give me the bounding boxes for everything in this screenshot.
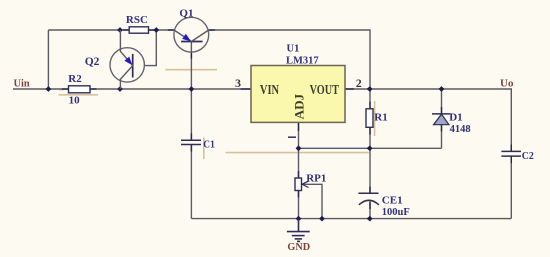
wire: Q1 base stub xyxy=(190,52,192,58)
wire: C1 top pin stub xyxy=(190,134,192,141)
svg-text:Uin: Uin xyxy=(14,77,30,89)
wire: D1 cathode pin stub xyxy=(441,107,443,114)
wire: CE1 top lead xyxy=(369,148,371,193)
op-amp U1 LM317 regulator body xyxy=(251,66,345,123)
wire: bottom rail xyxy=(191,218,511,220)
wire: C1 bottom column xyxy=(190,145,192,219)
svg-text:U1: U1 xyxy=(287,44,300,55)
svg-text:RP1: RP1 xyxy=(306,172,326,184)
node: wiper on bottom rail xyxy=(319,216,325,222)
wire: top rail right segment to corner xyxy=(209,30,370,89)
svg-text:R2: R2 xyxy=(68,73,82,85)
wire: Q2 base to RSC right junction xyxy=(144,30,156,66)
tan highlight line under R2 xyxy=(59,94,99,96)
wire: RP1 column xyxy=(298,148,300,218)
svg-text:10: 10 xyxy=(69,95,81,107)
tan dash on wire left of R2 xyxy=(60,89,64,91)
wire: C2 bottom pin stub xyxy=(510,156,512,163)
potentiometer RP1 xyxy=(295,172,326,190)
wire: R1 top pin stub xyxy=(369,102,371,109)
tan vertical near R1 xyxy=(374,101,376,136)
svg-text:D1: D1 xyxy=(449,111,462,123)
wire: RSC pin 2 stub xyxy=(149,29,155,31)
pin number 1 (rotated) xyxy=(288,136,296,138)
svg-text:LM317: LM317 xyxy=(286,55,319,66)
wire: R2 pin 2 stub xyxy=(90,88,97,90)
wire: top rail left segment xyxy=(48,29,174,31)
wire: CE1 top pin stub xyxy=(369,187,371,194)
tan line along ADJ net xyxy=(226,152,369,154)
node: RSC right on top rail xyxy=(153,27,159,33)
wire: left riser xyxy=(47,30,49,89)
svg-text:C2: C2 xyxy=(522,150,534,162)
svg-text:CE1: CE1 xyxy=(382,195,403,207)
node: GND on bottom rail xyxy=(296,216,302,222)
node: VOUT / D1 top xyxy=(439,86,445,92)
wire: Q1 collector stub xyxy=(209,29,215,31)
svg-text:Uo: Uo xyxy=(500,77,514,89)
svg-text:100uF: 100uF xyxy=(382,207,410,218)
wire: Q1 emitter stub xyxy=(168,29,174,31)
svg-text:VOUT: VOUT xyxy=(310,82,339,97)
svg-text:Q2: Q2 xyxy=(85,56,100,68)
wire: R1 column xyxy=(369,89,371,148)
wire: D1 bottom corner xyxy=(441,125,443,149)
node: CE1 on bottom rail xyxy=(367,216,373,222)
node: ADJ / RP1 xyxy=(296,145,302,151)
wire: Q1 base / C1 column xyxy=(190,42,192,141)
tan line below Q1 xyxy=(166,69,218,71)
node: Q2 collector on input line xyxy=(117,86,123,92)
wire: C1 bottom pin stub xyxy=(190,145,192,152)
wire: U1 pin 1 stub xyxy=(298,122,300,131)
node: VOUT / R1 top xyxy=(367,86,373,92)
capacitor CE1 (electrolytic) xyxy=(358,193,379,205)
wire: R1 bottom pin stub xyxy=(369,127,371,134)
wire: RSC pin 1 stub xyxy=(123,29,129,31)
capacitor C1 xyxy=(181,140,201,144)
resistor R1 xyxy=(366,109,373,128)
ground xyxy=(287,219,310,242)
wire: C2 bottom lead xyxy=(510,156,512,219)
svg-text:RSC: RSC xyxy=(126,14,148,26)
node: Q1 base / C1 on input line xyxy=(189,86,195,92)
wire: RP1 top pin stub xyxy=(298,171,300,178)
resistor RSC xyxy=(129,27,148,33)
wire: R2 pin 1 stub xyxy=(62,88,69,90)
wire: U1 pin 3 stub xyxy=(241,88,252,90)
transistor Q2 xyxy=(85,30,145,89)
wire: D1 top lead xyxy=(441,89,443,114)
wire: C2 top pin stub xyxy=(510,145,512,152)
svg-text:R1: R1 xyxy=(374,111,387,123)
svg-text:ADJ: ADJ xyxy=(293,94,307,120)
wire: CE1 bottom lead xyxy=(369,201,371,219)
wire: D1 anode pin stub xyxy=(441,125,443,132)
node: left riser / input line xyxy=(46,86,52,92)
svg-text:GND: GND xyxy=(287,241,310,253)
svg-text:Q1: Q1 xyxy=(179,8,193,20)
tan vertical near C1 xyxy=(203,137,205,159)
svg-text:3: 3 xyxy=(235,76,241,90)
node: RSC left on top rail xyxy=(117,27,123,33)
node: R1 bottom / CE1 top xyxy=(367,145,373,151)
wire: CE1 bottom pin stub xyxy=(369,202,371,209)
wire: VOUT rail pin2 to Uo corner xyxy=(345,89,511,151)
wire: RP1 bottom pin stub xyxy=(298,191,300,198)
resistor R2 xyxy=(69,86,91,93)
diode D1 4148 xyxy=(432,111,471,135)
transistor Q1 xyxy=(174,8,209,53)
svg-text:VIN: VIN xyxy=(260,82,279,97)
capacitor C2 xyxy=(501,151,521,156)
svg-text:2: 2 xyxy=(356,76,362,90)
wire: main input line Uin to pin3 xyxy=(13,88,251,90)
wire: ADJ pin down xyxy=(298,122,300,148)
wire: RP1 wiper xyxy=(302,184,322,218)
svg-text:C1: C1 xyxy=(203,138,215,150)
wire: U1 pin 2 stub xyxy=(345,88,354,90)
svg-text:4148: 4148 xyxy=(450,124,471,135)
wire: ADJ net horizontal xyxy=(299,147,442,149)
